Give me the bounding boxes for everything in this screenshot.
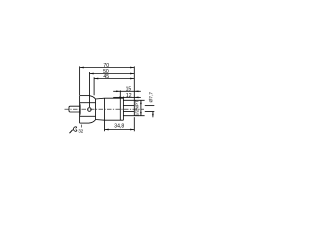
dim right common extension [133,66,135,100]
arrow 50 left [90,73,94,75]
O7.7 arrow tails [152,112,154,118]
hex chamfer arcs [89,96,96,99]
arrow 50 right [130,73,134,75]
svg-text:32: 32 [78,128,83,133]
hex vent hole [88,108,92,112]
svg-text:Ø7,7: Ø7,7 [148,92,154,103]
arrow 45 left [94,78,98,80]
hex inner flat lines [80,102,96,104]
arrow 70 left [80,67,84,69]
O7.7 dim extensions [145,105,155,107]
wrench tick [81,125,83,128]
dim 15 line [120,90,134,92]
groove line 1 [119,90,121,120]
left pin (probe tip) [69,106,80,112]
probe O7.7 lines [123,105,134,107]
dim 70 extension left [79,66,81,95]
threaded stub 1/2NPT [123,99,144,101]
arrow 34.8 right [130,129,134,131]
svg-text:45: 45 [103,74,109,80]
arrow 70 right [130,67,134,69]
svg-text:1/2NPT: 1/2NPT [134,100,140,116]
dim 45 extension left [93,77,95,95]
wrench symbol [70,127,78,133]
arrow O7.7 bottom outside [152,112,154,116]
cylinder section [105,97,124,99]
cone section [96,97,105,100]
hex right face [95,99,97,120]
arrow 12 left outside [119,97,123,99]
dim 34.8 line [105,129,135,131]
arrow NPT top [140,100,142,104]
arrow 15 right outside [134,90,138,92]
svg-text:12: 12 [126,93,132,99]
svg-text:34,8: 34,8 [114,123,124,129]
arrow 12 right outside [134,97,138,99]
centerline [65,108,145,110]
arrow 34.8 left [105,129,109,131]
dim 70 line [80,67,135,69]
dim 34.8 extensions [104,120,106,131]
hex body outline [79,96,81,124]
1/2NPT dim line [140,100,142,115]
svg-text:15: 15 [126,87,132,93]
dim 50 line [90,73,135,75]
junction line [104,98,106,120]
arrow 15 left outside [116,90,120,92]
arrow 45 right [130,78,134,80]
groove line 2 / shoulder face [122,97,124,121]
arrow NPT bottom [140,112,142,116]
dim 12 line [123,96,134,98]
dim 45 line [94,78,134,80]
dim 50 extension left [89,72,91,107]
